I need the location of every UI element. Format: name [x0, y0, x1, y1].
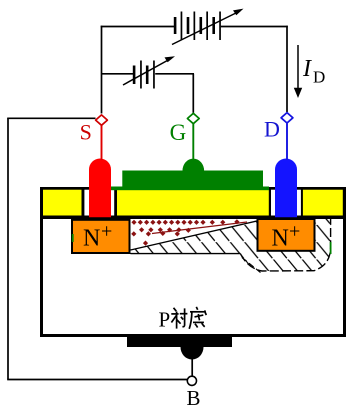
glyph 底 (hand drawn) — [189, 307, 206, 329]
battery VDS (top, multi-cell variable) — [174, 12, 221, 41]
node G terminal diamond — [187, 113, 199, 123]
wire substrate top horizontal — [7, 117, 95, 119]
battery VGS (lower, variable) — [133, 61, 155, 89]
battery VDS variable arrow — [172, 9, 244, 45]
svg-text:D: D — [264, 116, 280, 141]
depletion boundary diagonal (solid) — [131, 221, 257, 250]
gate wire (green) — [192, 124, 194, 161]
svg-text:D: D — [313, 68, 325, 87]
depletion bottom line (solid) — [131, 253, 241, 255]
channel inversion-layer dots (electrons) — [131, 219, 239, 246]
node D terminal diamond — [281, 113, 293, 123]
glyph 衬 (hand drawn) — [171, 308, 187, 329]
oxide window right (white) — [271, 190, 301, 216]
green sliver on depletion right edge — [330, 242, 332, 254]
substrate contact blob — [181, 347, 204, 360]
oxide SiO2 right (yellow) — [303, 190, 343, 216]
substrate contact bar — [127, 337, 232, 347]
drain electrode (blue) — [275, 159, 297, 218]
depletion inner dashed line — [242, 258, 261, 273]
channel pinch red boundary line — [152, 222, 247, 234]
depletion region (hatched) — [131, 218, 331, 271]
svg-text:+: + — [289, 221, 300, 243]
wire top horizontal right — [221, 26, 288, 28]
N+ region right — [258, 219, 315, 252]
svg-text:P: P — [159, 308, 171, 332]
oxide SiO2 middle (yellow) — [117, 190, 269, 216]
oxide band black base (top line, window borders, bottom line) — [40, 187, 346, 219]
wire gate bias horizontal right — [155, 73, 194, 75]
depletion bowl boundary (dashed) — [240, 219, 330, 271]
drain wire (blue) — [286, 124, 288, 161]
battery VGS variable arrow — [123, 56, 175, 85]
svg-text:G: G — [170, 120, 187, 145]
wire gate vertical — [192, 74, 194, 113]
svg-text:+: + — [101, 221, 112, 243]
source wire (red) — [101, 126, 103, 161]
svg-text:B: B — [187, 386, 201, 409]
node S terminal diamond — [96, 115, 108, 125]
wire B node vertical — [191, 358, 193, 377]
wire substrate bottom horizontal — [7, 379, 188, 381]
source electrode (red) — [89, 159, 111, 218]
green sliver on left N+ box border — [72, 234, 74, 242]
wire substrate left vertical — [7, 118, 9, 379]
wire drain vertical — [286, 26, 288, 112]
wire top loop left vertical (S branch) — [7, 26, 288, 380]
oxide SiO2 left (yellow) — [43, 190, 82, 216]
N+ region left — [72, 220, 130, 253]
svg-text:S: S — [80, 120, 92, 145]
wire top horizontal left — [101, 26, 174, 28]
P substrate box frame — [42, 189, 345, 336]
node B terminal circle — [187, 376, 196, 385]
oxide window left (white) — [84, 190, 114, 216]
wire gate bias horizontal left — [102, 73, 134, 75]
svg-text:I: I — [302, 56, 312, 82]
svg-text:N: N — [83, 226, 100, 252]
gate electrode (green) — [110, 159, 269, 191]
svg-text:N: N — [272, 226, 289, 252]
current ID arrow — [294, 45, 302, 98]
